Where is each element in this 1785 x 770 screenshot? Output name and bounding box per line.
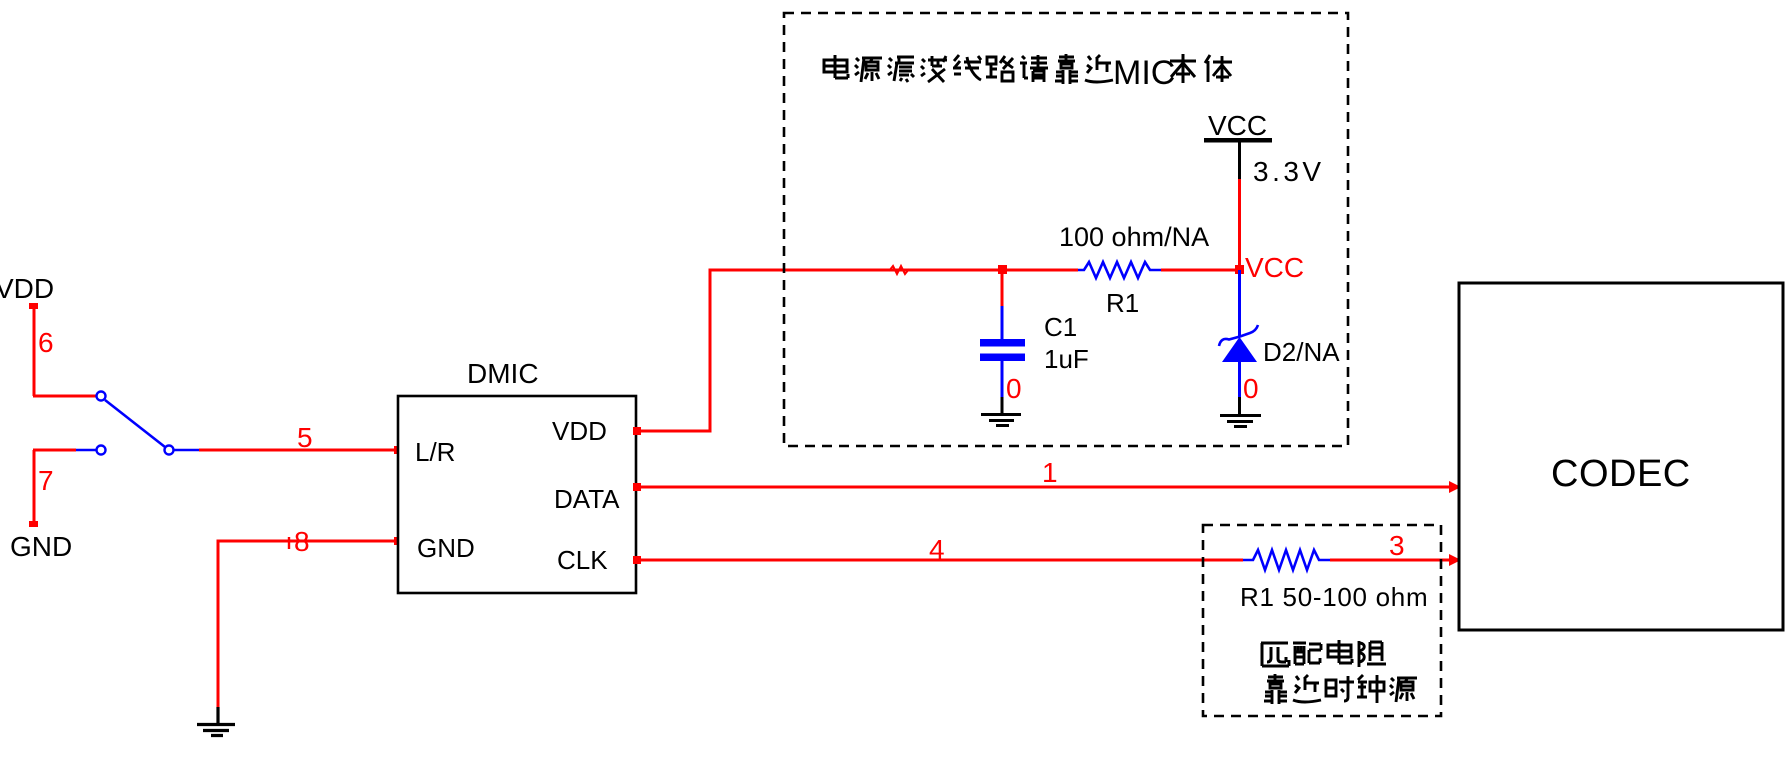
wire VDD from DMIC up to filter [636,270,1078,431]
svg-text:VDD: VDD [0,273,54,304]
svg-text:1: 1 [1042,457,1058,488]
switch SW1 unused contact [97,446,106,455]
svg-text:6: 6 [38,327,54,358]
svg-text:DATA: DATA [554,484,620,514]
net 8 wire GND to DMIC [218,541,398,707]
diode D2 bottom lead [1238,362,1241,397]
pin dot L/R [394,446,402,454]
wire artifact squiggle [889,266,909,274]
pin dot DATA [633,483,641,491]
svg-text:5: 5 [297,422,313,453]
svg-text:GND: GND [10,531,72,562]
svg-text:MIC: MIC [1113,54,1175,92]
svg-text:4: 4 [929,534,945,565]
svg-text:R1 50-100 ohm: R1 50-100 ohm [1240,582,1428,612]
resistor R1 100ohm leads [1161,269,1240,272]
diode D2 zener top lead [1238,270,1241,337]
CJK line: kao jin shi zhong yuan [1264,674,1417,704]
net 5 wire to DMIC L/R [199,449,398,452]
svg-text:C1: C1 [1044,312,1077,342]
net 1 DATA wire [636,486,1455,489]
node VDD endpoint dot [29,303,38,309]
component CODEC U2 box [1459,283,1783,630]
svg-text:0: 0 [1006,373,1022,404]
wire GND stub vertical [33,450,36,525]
pin dot GND [394,537,402,545]
CJK line: pi pei dian zu [1261,640,1386,667]
wire blue stub unused contact [76,449,96,452]
wire VCC down red [1238,179,1241,270]
svg-text:3.3V: 3.3V [1253,156,1325,187]
svg-text:R1: R1 [1106,288,1139,318]
junction node C1 tap [998,265,1007,274]
power VCC lead black [1238,142,1241,179]
svg-text:7: 7 [38,465,54,496]
dashed box power filter [784,13,1348,446]
wire GND stub horizontal [33,449,76,452]
svg-text:3: 3 [1389,530,1405,561]
capacitor C1 bottom lead [1001,361,1004,397]
svg-text:0: 0 [1243,373,1259,404]
node GND endpoint dot [29,521,38,527]
switch SW1 pole contact [97,392,106,401]
net 4 CLK wire [636,559,1455,562]
svg-text:8: 8 [294,526,310,557]
title CJK: dian yuan lv bo xian lu qing kao jin MIC ben ti [824,54,1232,92]
capacitor C1 top lead [1001,269,1004,308]
ground symbol D2 [1220,397,1261,427]
svg-text:100 ohm/NA: 100 ohm/NA [1059,222,1209,252]
component DMIC U1 box [398,396,636,593]
pin dot CLK [633,556,641,564]
svg-text:GND: GND [417,533,475,563]
svg-text:VCC: VCC [1208,110,1267,141]
arrowhead DATA at CODEC [1449,481,1461,493]
diode D2 zener bar [1219,325,1258,346]
node VCC junction dot [1235,265,1244,274]
svg-text:VCC: VCC [1245,252,1304,283]
resistor R1 100ohm zigzag [1078,262,1161,278]
wire to switch common [33,395,96,398]
switch SW1 blade [105,400,165,447]
arrowhead CLK at CODEC [1449,554,1461,566]
wire VDD stub vertical [33,306,36,396]
capacitor C1 plates [980,339,1025,347]
power VCC bar [1204,138,1272,143]
svg-text:CLK: CLK [557,545,608,575]
ground symbol C1 [981,397,1021,426]
resistor R1 50-100 zigzag [1243,550,1330,570]
svg-text:CODEC: CODEC [1551,453,1691,495]
switch SW1 throw contact [165,446,174,455]
diode D2 zener triangle [1222,337,1257,362]
net 8 tick [288,537,290,549]
svg-text:DMIC: DMIC [467,358,539,389]
svg-text:VDD: VDD [552,416,607,446]
svg-text:1uF: 1uF [1044,344,1089,374]
wire blue stub throw to L/R [174,449,199,452]
svg-text:D2/NA: D2/NA [1263,337,1340,367]
ground symbol left [197,707,235,736]
dashed box matching resistor [1203,525,1441,716]
svg-text:L/R: L/R [415,437,455,467]
pin dot VDD [633,427,641,435]
